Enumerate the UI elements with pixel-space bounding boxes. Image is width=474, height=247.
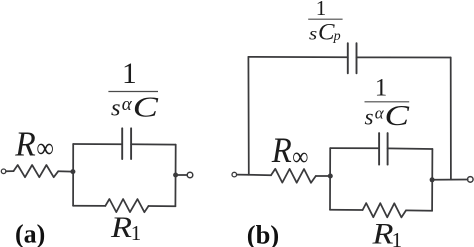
resistor Rinf (a) [14, 165, 59, 177]
svg-text:∞: ∞ [36, 133, 54, 164]
wire inner box top-right segment (b) [388, 147, 433, 150]
wire terminal to Rinf (b) [237, 174, 271, 177]
wire box bottom-left segment (a) [73, 205, 105, 207]
wire box top-left segment (a) [73, 143, 122, 145]
terminal left (a) [1, 169, 6, 174]
svg-text:R: R [371, 218, 393, 247]
capacitor C (b) [378, 133, 380, 165]
svg-text:p: p [333, 29, 341, 44]
svg-text:C: C [385, 101, 410, 132]
label 1/(s Cp) value of capacitor Cp (b) [308, 0, 342, 44]
wire inner box top-left segment (b) [330, 147, 379, 149]
wire Rinf to node (a) [58, 170, 73, 172]
wire terminal to R-inf (a) [6, 170, 14, 172]
node right inner (b) [430, 177, 435, 182]
svg-text:α: α [122, 94, 133, 115]
resistor Rinf (b) [271, 169, 316, 183]
wire outer loop left edge (b) [247, 57, 249, 175]
svg-text:1: 1 [392, 228, 403, 247]
node right (a) [173, 173, 178, 178]
terminal right (a) [187, 172, 193, 178]
svg-text:∞: ∞ [292, 142, 308, 171]
wire outer loop top-right segment (b) [357, 56, 451, 58]
wire Rinf to node (b) [316, 175, 331, 177]
svg-text:R: R [271, 130, 292, 170]
svg-text:(b): (b) [247, 219, 279, 247]
wire outer loop right edge (b) [450, 58, 452, 180]
svg-text:(a): (a) [15, 220, 45, 247]
wire box bottom-right segment (a) [149, 205, 176, 207]
svg-text:1: 1 [131, 221, 142, 245]
label 1/(s^alpha C) value of capacitor (a) [108, 58, 158, 123]
label R-infinity (b) [271, 130, 309, 171]
svg-text:C: C [133, 92, 159, 123]
node left (a) [70, 169, 75, 174]
terminal right (b) [468, 177, 474, 183]
wire outer loop top-left segment (b) [248, 56, 347, 58]
label R-infinity (a) [14, 124, 54, 164]
capacitor Cp (b) [347, 43, 349, 73]
wire inner box bottom-left segment (b) [330, 209, 363, 211]
svg-text:1: 1 [122, 58, 137, 90]
wire box top-right segment (a) [131, 143, 176, 145]
wire node to terminal right (a) [176, 174, 188, 176]
wire inner box right edge (b) [431, 149, 433, 211]
wire inner box bottom-right segment (b) [406, 209, 432, 211]
svg-text:s: s [309, 23, 317, 43]
wire inner box left edge (b) [329, 148, 331, 210]
label R1 (b) [371, 218, 402, 247]
resistor R1 (a) [105, 199, 148, 212]
svg-text:α: α [375, 103, 385, 122]
wire node to terminal right (b) [432, 179, 468, 181]
svg-text:1: 1 [316, 0, 327, 20]
svg-text:1: 1 [375, 75, 388, 102]
svg-text:R: R [14, 124, 35, 163]
label R1 (a) [110, 211, 141, 245]
svg-text:R: R [110, 211, 132, 244]
resistor R1 (b) [363, 203, 406, 217]
svg-text:s: s [365, 105, 374, 130]
capacitor C (a) [121, 128, 123, 159]
label 1/(s^alpha C) value of capacitor (b) [365, 75, 410, 132]
wire box right edge (a) [174, 145, 176, 207]
wire box left edge (a) [72, 144, 74, 206]
terminal left (b) [232, 172, 237, 177]
node left inner (b) [328, 174, 333, 179]
svg-text:s: s [111, 95, 121, 121]
